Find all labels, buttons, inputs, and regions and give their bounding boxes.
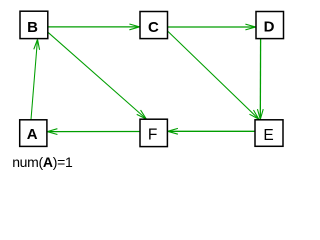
svg-text:F: F bbox=[148, 127, 157, 144]
svg-text:E: E bbox=[263, 127, 273, 144]
svg-text:A: A bbox=[27, 126, 38, 143]
svg-text:num(A)=1: num(A)=1 bbox=[12, 154, 73, 170]
svg-text:B: B bbox=[27, 19, 38, 36]
svg-text:D: D bbox=[264, 19, 275, 36]
svg-text:C: C bbox=[148, 19, 159, 36]
